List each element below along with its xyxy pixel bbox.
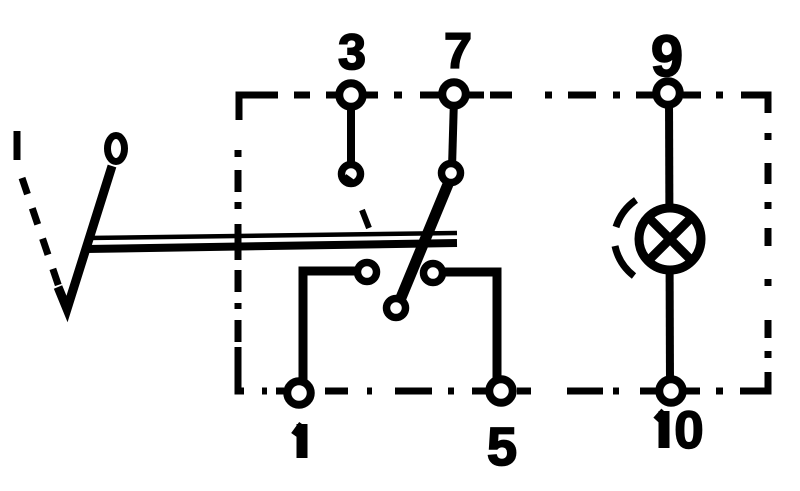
svg-text:7: 7	[444, 23, 472, 79]
terminal 3	[339, 83, 363, 107]
wire contact-right to terminal 5	[435, 272, 497, 378]
actuator rod top line	[87, 233, 457, 238]
terminal 7	[442, 82, 466, 106]
lamp L1 illumination arcs	[615, 200, 636, 276]
switch movable bar	[398, 177, 451, 305]
label 10	[656, 411, 664, 448]
terminal 1	[287, 381, 311, 405]
svg-text:9: 9	[651, 24, 683, 89]
rod tick	[362, 210, 369, 228]
contact middle right	[424, 264, 443, 283]
wire terminal 7 to contact	[452, 98, 454, 168]
enclosure dash-dot border bottom	[238, 347, 723, 391]
label 0	[108, 136, 125, 162]
lamp L1 bulb	[639, 208, 701, 270]
enclosure dash-dot border top	[239, 95, 768, 120]
contact under terminal 3	[342, 165, 361, 184]
enclosure dash-dot border right	[740, 133, 768, 391]
wire terminal 9 to terminal 10 through lamp	[669, 98, 670, 385]
label 1	[294, 424, 302, 458]
actuator rod bottom line	[86, 243, 457, 249]
wire contact-left to terminal 1	[303, 271, 365, 380]
contact under terminal 7	[442, 164, 461, 183]
svg-text:5: 5	[487, 417, 517, 477]
contact bar bottom end	[387, 299, 406, 318]
terminal 9	[656, 81, 680, 105]
contact middle left	[358, 263, 377, 282]
terminal 5	[489, 379, 513, 403]
terminal 10	[659, 379, 683, 403]
svg-text:0: 0	[674, 401, 703, 460]
lever 0 actuator	[58, 166, 112, 309]
svg-text:3: 3	[338, 24, 366, 80]
lever dashed alternate position	[17, 131, 62, 296]
wire terminal 3 to contact	[347, 99, 355, 170]
enclosure dash-dot border left	[235, 150, 242, 342]
